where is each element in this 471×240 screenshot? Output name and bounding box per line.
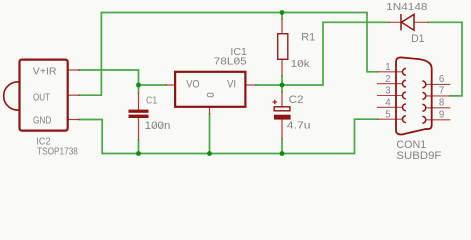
svg-text:100n: 100n <box>145 120 171 132</box>
svg-text:VI: VI <box>227 79 236 91</box>
svg-text:9: 9 <box>439 109 444 120</box>
svg-text:TSOP1738: TSOP1738 <box>37 147 78 158</box>
svg-text:R1: R1 <box>301 32 315 44</box>
svg-text:4.7u: 4.7u <box>287 120 311 131</box>
svg-text:2: 2 <box>385 74 390 85</box>
svg-text:OUT: OUT <box>33 92 50 103</box>
svg-text:D1: D1 <box>411 33 424 45</box>
svg-text:C1: C1 <box>146 96 157 107</box>
svg-text:7: 7 <box>439 85 444 96</box>
svg-text:4: 4 <box>385 97 391 108</box>
svg-text:VO: VO <box>186 79 200 91</box>
svg-text:5: 5 <box>385 109 390 120</box>
svg-text:3: 3 <box>385 86 390 97</box>
svg-text:8: 8 <box>439 97 444 108</box>
svg-text:C2: C2 <box>289 94 304 106</box>
svg-text:V+IR: V+IR <box>33 67 57 78</box>
svg-text:GND: GND <box>33 115 51 126</box>
svg-text:10k: 10k <box>291 59 310 70</box>
svg-text:SUBD9F: SUBD9F <box>396 150 441 162</box>
svg-text:78L05: 78L05 <box>214 56 247 67</box>
svg-text:1N4148: 1N4148 <box>386 2 427 13</box>
svg-text:1: 1 <box>385 62 390 73</box>
svg-text:6: 6 <box>439 74 444 85</box>
